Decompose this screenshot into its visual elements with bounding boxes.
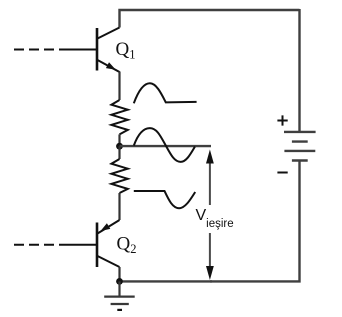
svg-text:Q2: Q2: [117, 234, 137, 257]
waveform full sine at output node: [134, 128, 195, 162]
label Viesire: [195, 205, 234, 233]
wire top rail: [120, 10, 300, 28]
svg-text:Q1: Q1: [116, 39, 136, 62]
wire dashed input top: [14, 49, 54, 51]
transistor Q2: [97, 220, 120, 267]
wire output node to arrow: [120, 145, 212, 147]
battery V1: [284, 132, 316, 161]
node B ground node: [116, 278, 123, 285]
wire R2 to Q2 emitter: [118, 193, 120, 220]
node A output node: [116, 143, 123, 150]
resistor R1: [111, 100, 127, 134]
wire Q2 base lead: [59, 244, 96, 246]
wire Q1 base lead: [59, 49, 96, 51]
wire right rail upper: [298, 9, 300, 131]
waveform half-sine positive at Q1 output: [134, 83, 197, 103]
wire node to R2: [118, 146, 120, 159]
wire R1 to node: [118, 134, 120, 146]
wire dashed input bottom: [14, 244, 54, 246]
label battery plus: [277, 115, 287, 125]
label battery minus: [277, 172, 287, 174]
wire Q1 emitter to R1: [118, 72, 120, 101]
wire Q2 collector down: [118, 267, 120, 281]
wire right rail lower: [210, 161, 300, 282]
transistor Q1: [97, 28, 120, 73]
ground: [104, 281, 135, 310]
waveform half-sine negative at Q2 output: [134, 191, 195, 208]
label Q2: [117, 234, 137, 257]
resistor R2: [111, 159, 127, 193]
measurement arrow Viesire: [206, 150, 214, 281]
label Q1: [116, 39, 136, 62]
wire bottom rail: [119, 280, 212, 282]
